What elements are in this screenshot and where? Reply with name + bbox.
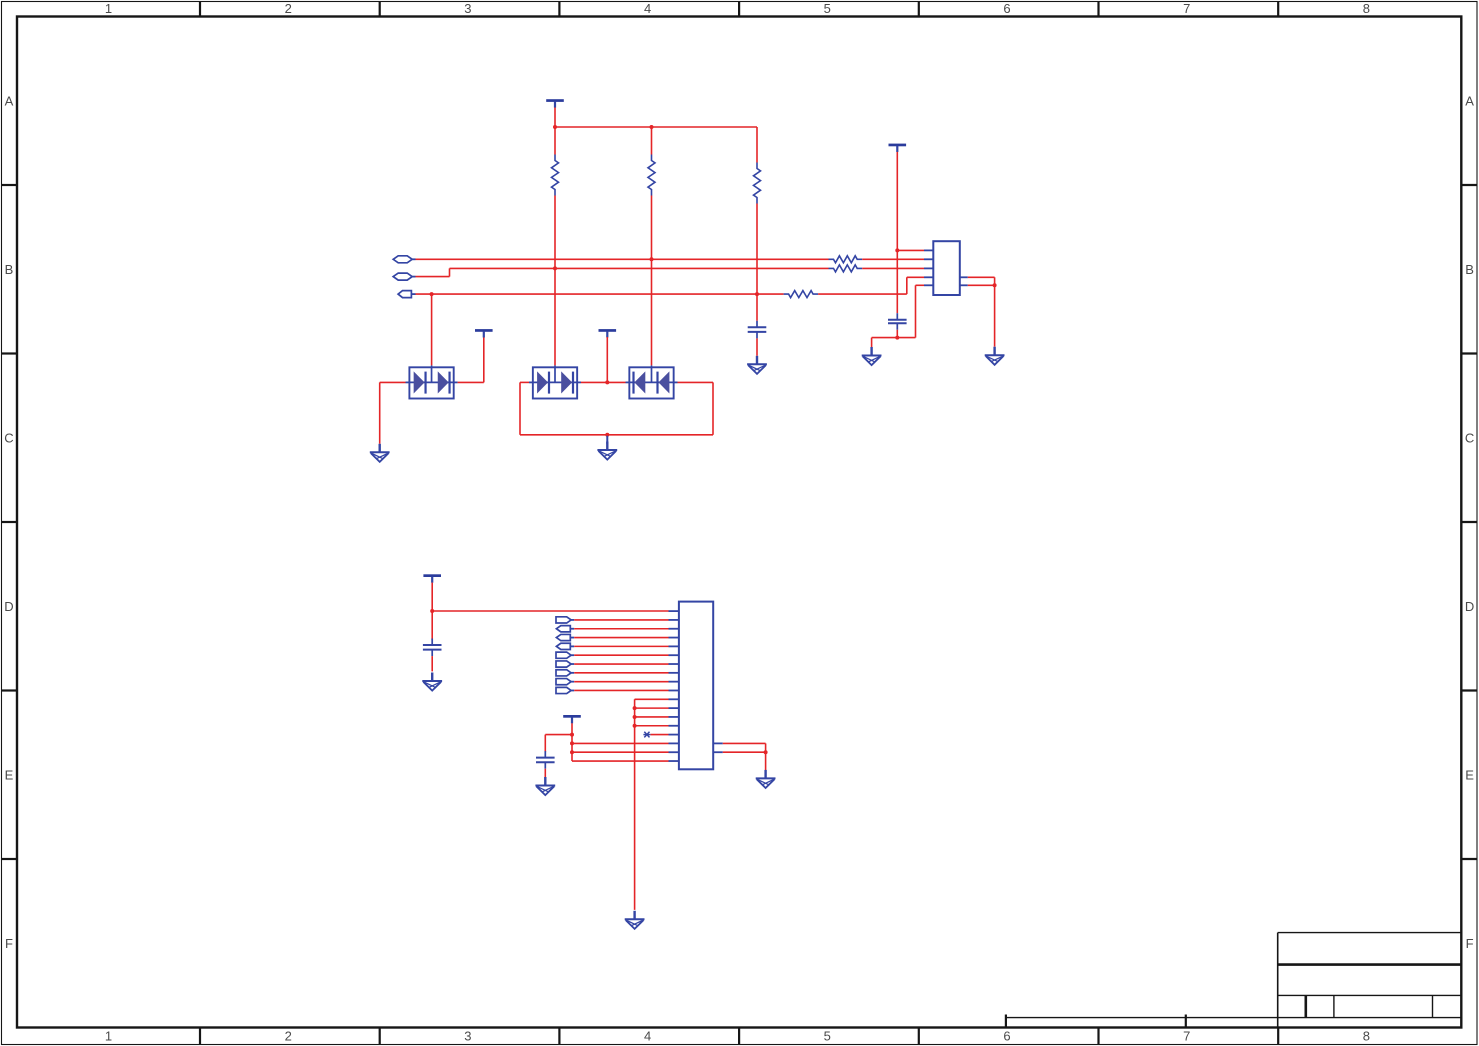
- border row letters right: [1465, 93, 1474, 951]
- op-amp U1 (sensor IC): [933, 241, 960, 295]
- wire R3 to INT bus: [756, 204, 758, 295]
- border row tick marks: [2, 185, 1478, 859]
- capacitor C4: [536, 751, 555, 769]
- svg-text:3: 3: [464, 1, 471, 16]
- connector U2 (18-pin): [679, 602, 713, 770]
- wire U2 pin12: [635, 707, 669, 709]
- capacitor C3: [423, 639, 442, 657]
- wire D2 to D3 link: [577, 381, 629, 383]
- port OUT5: [556, 679, 574, 685]
- junction R2 on SCL bus: [650, 257, 654, 261]
- resistor R6: [784, 291, 819, 298]
- border column tick marks: [200, 2, 1278, 1045]
- svg-text:A: A: [1465, 93, 1474, 108]
- ground GND4: [862, 347, 882, 365]
- wire port OUT4 to U2: [574, 672, 668, 674]
- port IN3: [556, 643, 574, 649]
- wire U2 pin13: [635, 716, 669, 718]
- wire SDA bus: [416, 258, 829, 260]
- ground GND7: [756, 770, 776, 788]
- svg-text:3: 3: [464, 1029, 471, 1044]
- U2 right pin stubs pins 19-20: [713, 743, 723, 752]
- border column numbers top: [105, 1, 1370, 16]
- esd diode pair D2: [533, 367, 577, 398]
- svg-text:E: E: [1465, 767, 1474, 782]
- wire VCC2 to U1 pin1: [897, 249, 924, 251]
- junction R3 on INT bus: [755, 292, 759, 296]
- wire D1 left to ground: [380, 382, 410, 443]
- junction U2 right node: [764, 750, 768, 754]
- svg-text:5: 5: [824, 1029, 831, 1044]
- wire VCC2 to C2: [896, 250, 898, 313]
- junction top rail mid: [650, 125, 654, 129]
- wire C2 bottom: [896, 330, 898, 338]
- svg-text:B: B: [1465, 262, 1474, 277]
- resistor R4: [829, 256, 863, 263]
- port XINT (input): [398, 291, 415, 298]
- power symbol VCC3: [475, 329, 493, 337]
- wire U2 pin16: [572, 742, 669, 744]
- wire INT bus: [416, 293, 784, 295]
- port XSCL (bidirectional): [393, 273, 415, 280]
- port OUT6: [556, 687, 574, 693]
- wire R1 down to D2: [554, 268, 556, 367]
- wire U2 pin20 to node: [723, 751, 766, 753]
- border column numbers bottom: [105, 1029, 1370, 1044]
- esd diode pair D1: [409, 367, 453, 398]
- wire port IN3 to U2: [574, 645, 668, 647]
- svg-text:8: 8: [1363, 1, 1370, 16]
- ground GND3: [747, 356, 767, 374]
- wire VCC5 to C3: [431, 611, 433, 640]
- wire D1 right to VCC: [454, 337, 484, 382]
- power symbol VCC1: [546, 99, 564, 127]
- wire U2 pin11 ground branch: [635, 699, 669, 910]
- resistor R2: [648, 155, 655, 196]
- svg-text:2: 2: [285, 1029, 292, 1044]
- U1 left pin stubs pins 1-5: [924, 250, 933, 285]
- wire U1 pin7: [968, 284, 995, 286]
- port IN2: [556, 634, 574, 640]
- wire D3 right to bottom rail: [674, 382, 713, 434]
- wire VCC6 to C4: [545, 735, 572, 752]
- junction VCC6 pin16 tap: [570, 741, 574, 745]
- svg-text:8: 8: [1363, 1029, 1370, 1044]
- junction bottom rail ground tap: [605, 433, 609, 437]
- capacitor C2: [888, 313, 907, 330]
- port OUT4: [556, 670, 574, 676]
- svg-text:1: 1: [105, 1, 112, 16]
- resistor R5: [829, 265, 863, 272]
- svg-text:D: D: [1465, 599, 1474, 614]
- wire U1 pin6 to pin7 node: [968, 277, 995, 285]
- wire VCC5 to U2 pin1: [432, 610, 668, 612]
- border row letters left: [4, 93, 13, 951]
- U2 left pin stubs pins 1-18: [669, 611, 679, 761]
- junction ground bus pin12: [633, 706, 637, 710]
- svg-text:F: F: [5, 936, 13, 951]
- wire rail corner to R3: [756, 127, 758, 163]
- svg-text:4: 4: [644, 1, 651, 16]
- wire top rail: [555, 126, 757, 128]
- svg-text:B: B: [5, 262, 14, 277]
- wire U2 pin19 to node: [723, 743, 766, 752]
- svg-text:6: 6: [1003, 1029, 1010, 1044]
- no-connect marker U2 pin15: [643, 732, 668, 738]
- wire SCL port segment: [416, 268, 829, 276]
- wire port OUT6 to U2: [574, 689, 668, 691]
- svg-text:E: E: [5, 767, 14, 782]
- wire port IN2 to U2: [574, 637, 668, 639]
- junction ground bus pin14: [633, 724, 637, 728]
- resistor R1: [552, 155, 559, 196]
- wire R2 top lead: [651, 127, 653, 155]
- wire R3 to C1: [756, 294, 758, 321]
- svg-text:A: A: [5, 93, 14, 108]
- svg-text:6: 6: [1003, 1, 1010, 16]
- port OUT2: [556, 652, 574, 658]
- U1 right pin stubs pins 6-7: [960, 277, 968, 285]
- wire port OUT5 to U2: [574, 681, 668, 683]
- wire D1 branch down: [431, 294, 433, 367]
- wire C4 to ground: [544, 769, 546, 778]
- junction D2-D3 link: [605, 380, 609, 384]
- wire R2 to net SCL: [651, 196, 653, 260]
- ground GND1: [370, 444, 390, 462]
- svg-text:7: 7: [1183, 1, 1190, 16]
- wire U1 pin5 bypass: [897, 285, 924, 337]
- junction C2 ground node: [895, 336, 899, 340]
- wire port OUT1 to U2: [574, 619, 668, 621]
- junction top rail left: [553, 125, 557, 129]
- wire R1 to net SDA: [554, 196, 556, 269]
- svg-text:C: C: [4, 430, 13, 445]
- wire C3 to ground: [431, 656, 433, 671]
- ground GND5: [985, 347, 1005, 365]
- ground GND9: [422, 673, 442, 691]
- svg-text:F: F: [1466, 936, 1474, 951]
- junction INT at D1 branch: [430, 292, 434, 296]
- svg-text:D: D: [4, 599, 13, 614]
- ground GND8: [625, 911, 645, 929]
- wire port IN1 to U2: [574, 628, 668, 630]
- ground GND2: [597, 436, 617, 460]
- wire U2 pin18: [572, 760, 669, 762]
- port XSDA (bidirectional): [393, 256, 415, 263]
- wire R1 top lead: [554, 127, 556, 155]
- power symbol VCC2: [889, 144, 907, 251]
- power symbol VCC5: [423, 574, 441, 611]
- svg-text:2: 2: [285, 1, 292, 16]
- wire U2 pin14: [635, 725, 669, 727]
- port IN1: [556, 626, 574, 632]
- esd diode pair D3: [629, 367, 673, 398]
- junction VCC6 pin17 tap: [570, 750, 574, 754]
- capacitor C1: [748, 321, 767, 339]
- wire C2 to ground: [872, 338, 898, 348]
- svg-text:4: 4: [644, 1029, 651, 1044]
- port OUT1: [556, 617, 574, 623]
- ground GND6: [535, 777, 555, 795]
- wire D2 left to bottom rail: [520, 382, 713, 434]
- wire U1 node to ground: [994, 285, 996, 346]
- wire R4 to U1 pin2: [862, 258, 924, 260]
- wire C1 to ground: [756, 338, 758, 355]
- power symbol VCC4: [599, 329, 617, 382]
- resistor R3: [754, 163, 761, 204]
- title block: [1006, 933, 1461, 1028]
- svg-text:C: C: [1465, 430, 1474, 445]
- wire R2 down to D3: [651, 259, 653, 367]
- junction VCC2 at U1 pin1: [895, 248, 899, 252]
- junction U1 output node: [993, 283, 997, 287]
- wire port OUT2 to U2: [574, 654, 668, 656]
- wire R6 to U1 pin4: [818, 277, 924, 294]
- junction R1 on SDA bus: [553, 266, 557, 270]
- junction ground bus pin13: [633, 715, 637, 719]
- svg-text:7: 7: [1183, 1029, 1190, 1044]
- wire U2 pin17: [572, 751, 669, 753]
- junction VCC6 cap tap: [570, 733, 574, 737]
- wire port OUT3 to U2: [574, 663, 668, 665]
- junction VCC5 node: [430, 609, 434, 613]
- wire U2 node to ground: [765, 752, 767, 774]
- power symbol VCC6: [563, 715, 581, 761]
- svg-text:5: 5: [824, 1, 831, 16]
- port OUT3: [556, 661, 574, 667]
- wire R5 to U1 pin3: [862, 267, 924, 269]
- svg-text:1: 1: [105, 1029, 112, 1044]
